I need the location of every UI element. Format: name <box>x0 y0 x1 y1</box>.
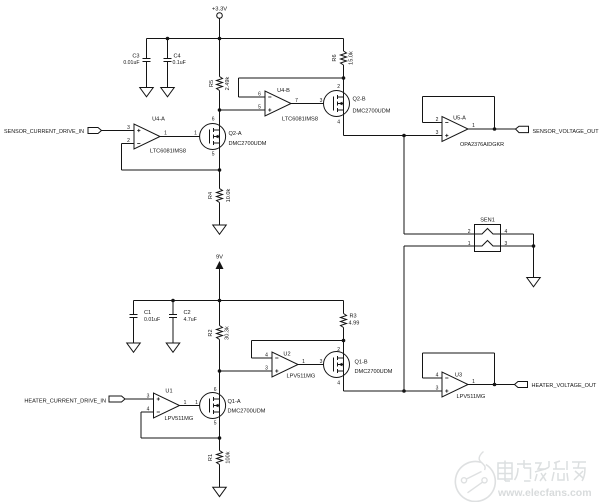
svg-text:4: 4 <box>337 120 340 126</box>
svg-text:DMC2700UDM: DMC2700UDM <box>353 109 391 115</box>
wire to ground <box>533 246 535 278</box>
ground under SEN1 <box>527 278 541 287</box>
resistor R3 <box>341 301 360 341</box>
wire SEN1 pin3 <box>501 245 534 247</box>
resistor R6 <box>332 39 355 79</box>
resistor R4 <box>208 170 232 225</box>
resistor R1 <box>208 438 232 487</box>
ground under R1 <box>213 487 227 496</box>
wire Q1-A source <box>219 412 221 438</box>
wire U1 feedback <box>140 412 142 438</box>
svg-text:SEN1: SEN1 <box>480 218 495 224</box>
svg-text:R1: R1 <box>208 454 214 461</box>
svg-text:7: 7 <box>295 98 298 104</box>
junction pin3/pin4 <box>532 244 536 248</box>
op-amp U2 <box>272 351 315 379</box>
svg-text:U4-A: U4-A <box>152 116 165 122</box>
op-amp U5-A <box>442 116 504 148</box>
svg-text:1: 1 <box>472 123 475 129</box>
svg-text:4: 4 <box>436 373 439 379</box>
junction R5/drive node <box>218 108 222 112</box>
svg-text:Q1-A: Q1-A <box>228 399 241 405</box>
wire U3 pin4 feedback loop <box>423 377 443 379</box>
svg-text:SENSOR_VOLTAGE_OUT: SENSOR_VOLTAGE_OUT <box>533 129 600 135</box>
wire U4-A out to Q2-A gate <box>160 136 210 138</box>
svg-text:5: 5 <box>212 152 215 158</box>
ground under C3 <box>140 88 154 97</box>
svg-text:2: 2 <box>337 347 340 353</box>
junction sensor node <box>402 134 406 138</box>
sensor SEN1 <box>475 218 501 252</box>
svg-text:4.7uF: 4.7uF <box>184 317 197 323</box>
port SENSOR_VOLTAGE_OUT <box>516 126 600 135</box>
svg-text:1: 1 <box>194 131 197 137</box>
svg-text:3: 3 <box>147 394 150 400</box>
op-amp U4-A <box>134 116 186 154</box>
resistor R5 <box>209 39 231 111</box>
svg-text:4: 4 <box>147 407 150 413</box>
svg-text:R4: R4 <box>208 192 214 199</box>
junction feedback/out <box>493 127 497 131</box>
svg-text:SENSOR_CURRENT_DRIVE_IN: SENSOR_CURRENT_DRIVE_IN <box>4 129 84 135</box>
junction R3/feedback/drain <box>342 339 346 343</box>
svg-text:U3: U3 <box>455 373 462 379</box>
wire bottom rail <box>134 300 344 302</box>
wire U2 out to Q1-B gate <box>298 364 334 366</box>
svg-text:4: 4 <box>265 353 268 359</box>
svg-text:U4-B: U4-B <box>277 88 290 94</box>
svg-text:Q1-B: Q1-B <box>355 360 368 366</box>
svg-text:0.01uF: 0.01uF <box>144 317 160 323</box>
svg-text:C3: C3 <box>132 54 139 60</box>
wire top rail <box>147 38 344 40</box>
svg-text:Q2-B: Q2-B <box>353 97 366 103</box>
wire U4-B pin6 feedback <box>239 96 266 98</box>
ground under C4 <box>161 88 175 97</box>
svg-text:3: 3 <box>127 125 130 131</box>
svg-text:2: 2 <box>468 229 471 235</box>
svg-text:1: 1 <box>195 400 198 406</box>
svg-text:4: 4 <box>337 381 340 387</box>
wire U4-B out to Q2-B gate <box>291 103 334 105</box>
svg-text:C2: C2 <box>184 310 191 316</box>
svg-text:3: 3 <box>320 359 323 365</box>
svg-text:30.3k: 30.3k <box>225 326 231 340</box>
svg-text:U2: U2 <box>283 351 290 357</box>
svg-text:C1: C1 <box>144 310 151 316</box>
wire Q2-A source <box>219 143 221 170</box>
svg-text:R2: R2 <box>208 329 214 336</box>
watermark logo <box>455 452 495 502</box>
junction R6/feedback/drain <box>342 76 346 80</box>
svg-text:www.elecfans.com: www.elecfans.com <box>497 487 592 499</box>
svg-text:LTC6081IMS8: LTC6081IMS8 <box>150 148 186 154</box>
svg-text:3: 3 <box>436 386 439 392</box>
svg-text:DMC2700UDM: DMC2700UDM <box>228 409 266 415</box>
svg-text:Q2-A: Q2-A <box>229 131 242 137</box>
port SENSOR_CURRENT_DRIVE_IN <box>4 128 101 136</box>
transistor Q2-A <box>200 117 267 158</box>
junction source/feedback <box>218 436 222 440</box>
op-amp U3 <box>442 372 485 400</box>
capacitor C3 <box>123 39 150 88</box>
wire Q2-B source to node <box>343 110 345 136</box>
svg-text:DMC2700UDM: DMC2700UDM <box>229 141 267 147</box>
svg-text:1: 1 <box>472 379 475 385</box>
wire input to U1 pin3 <box>125 398 154 400</box>
wire Q2-A drain <box>219 110 221 130</box>
svg-text:100k: 100k <box>226 451 232 463</box>
junction 9V/rail <box>218 299 222 303</box>
svg-text:LPV511MG: LPV511MG <box>287 374 316 380</box>
svg-text:10.0k: 10.0k <box>226 188 232 202</box>
power +3.3V <box>212 7 227 39</box>
svg-text:HEATER_VOLTAGE_OUT: HEATER_VOLTAGE_OUT <box>532 383 597 389</box>
ground under R4 <box>213 225 227 234</box>
svg-text:1: 1 <box>302 359 305 365</box>
svg-text:4.99: 4.99 <box>349 321 360 327</box>
op-amp U4-B <box>265 88 318 122</box>
svg-text:U1: U1 <box>165 389 172 395</box>
svg-text:2: 2 <box>127 138 130 144</box>
op-amp U1 <box>154 389 194 423</box>
svg-text:0.01uF: 0.01uF <box>123 60 139 66</box>
svg-text:HEATER_CURRENT_DRIVE_IN: HEATER_CURRENT_DRIVE_IN <box>24 399 106 405</box>
junction source/feedback <box>218 168 222 172</box>
wire SEN1 pin4 <box>501 233 534 235</box>
wire U1 pin4 <box>141 411 154 413</box>
wire Q1-B source to heater node <box>343 371 345 391</box>
svg-text:U5-A: U5-A <box>453 116 466 122</box>
svg-text:6: 6 <box>258 92 261 98</box>
svg-text:9V: 9V <box>216 255 223 261</box>
wire U5-A out <box>468 128 516 130</box>
transistor Q2-B <box>324 84 391 126</box>
wire U2 pin4 feedback <box>252 357 273 359</box>
svg-text:C4: C4 <box>174 54 181 60</box>
wire U1 out to Q1-A gate <box>180 405 210 407</box>
svg-text:LTC6081IMS8: LTC6081IMS8 <box>282 116 318 122</box>
svg-text:OPA2376AIDGKR: OPA2376AIDGKR <box>460 142 504 148</box>
junction power/rail <box>218 37 222 41</box>
power 9V <box>216 255 224 301</box>
port HEATER_VOLTAGE_OUT <box>515 382 597 390</box>
svg-text:R3: R3 <box>350 314 357 320</box>
svg-text:2: 2 <box>436 117 439 123</box>
svg-text:4: 4 <box>505 229 508 235</box>
svg-text:15.0k: 15.0k <box>349 51 355 65</box>
wire U4-A feedback <box>121 144 123 171</box>
svg-text:1: 1 <box>164 131 167 137</box>
svg-text:3: 3 <box>436 130 439 136</box>
ground under C2 <box>166 343 180 352</box>
svg-text:0.1uF: 0.1uF <box>173 60 186 66</box>
svg-text:R6: R6 <box>332 54 338 61</box>
capacitor C2 <box>169 301 197 344</box>
resistor R2 <box>208 301 231 372</box>
wire node down to SEN1 pin2 <box>403 136 405 235</box>
transistor Q1-A <box>200 387 266 427</box>
junction heater node <box>402 389 406 393</box>
svg-text:5: 5 <box>258 105 261 111</box>
svg-text:3: 3 <box>265 366 268 372</box>
wire SEN1 pin1 down to heater node <box>404 245 475 247</box>
svg-text:3: 3 <box>505 241 508 247</box>
capacitor C4 <box>164 39 186 88</box>
svg-text:1: 1 <box>184 400 187 406</box>
svg-text:LPV511MG: LPV511MG <box>165 416 194 422</box>
wire Q1-A drain <box>219 371 221 399</box>
junction C2/rail <box>171 299 175 303</box>
wire node to U4-B pin5 <box>220 109 266 111</box>
junction feedback/out <box>493 383 497 387</box>
svg-text:3: 3 <box>320 98 323 104</box>
svg-text:R5: R5 <box>209 80 215 87</box>
svg-text:2: 2 <box>337 84 340 90</box>
svg-text:DMC2700UDM: DMC2700UDM <box>355 369 393 375</box>
svg-text:6: 6 <box>214 387 217 393</box>
wire input to U4-A pin3 <box>102 130 135 132</box>
ground under C1 <box>127 343 141 352</box>
wire U4-A pin2 <box>122 143 135 145</box>
port HEATER_CURRENT_DRIVE_IN <box>24 396 125 405</box>
watermark text 电子发烧友 (approximated strokes) <box>498 460 586 481</box>
wire node to U2 pin3 <box>220 370 273 372</box>
svg-text:2.49k: 2.49k <box>225 76 231 90</box>
transistor Q1-B <box>324 347 393 387</box>
wire Q1-B drain <box>343 341 345 359</box>
capacitor C1 <box>130 301 161 344</box>
junction C4/rail <box>166 37 170 41</box>
wire Q2-B drain <box>343 78 345 97</box>
svg-text:6: 6 <box>212 117 215 123</box>
svg-text:5: 5 <box>214 421 217 427</box>
svg-text:+3.3V: +3.3V <box>212 7 227 13</box>
wire U5-A pin2 feedback loop <box>423 122 443 124</box>
wire U3 out <box>468 384 515 386</box>
svg-text:1: 1 <box>468 241 471 247</box>
junction R2/U2 node <box>218 369 222 373</box>
svg-text:LPV511MG: LPV511MG <box>457 394 486 400</box>
